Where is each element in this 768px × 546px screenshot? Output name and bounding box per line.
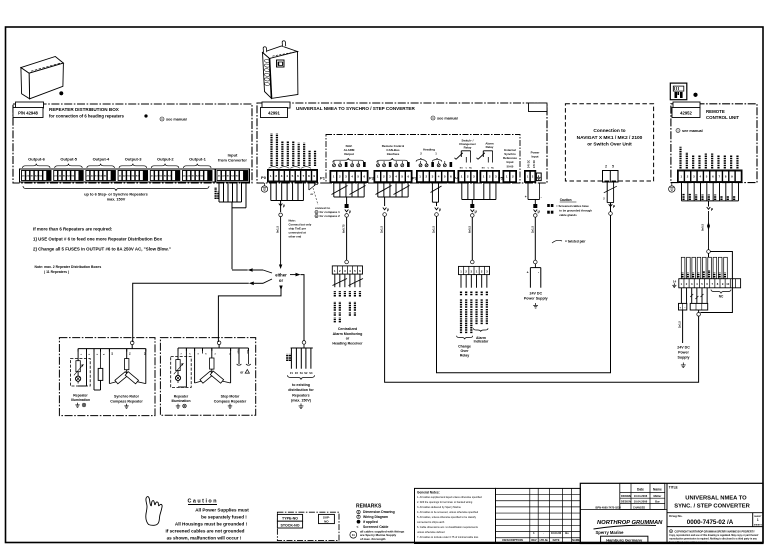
changeover alarm terminal strip bbox=[459, 266, 490, 274]
svg-text:6. Cable dimensions acc. to c: 6. Cable dimensions acc. to classificati… bbox=[417, 526, 479, 529]
entry junction 1 bbox=[130, 341, 134, 345]
output group Output-5 bbox=[54, 171, 58, 181]
svg-text:Supply: Supply bbox=[678, 356, 690, 360]
svg-text:.: . bbox=[543, 531, 544, 535]
svg-text:or Switch Over Unit: or Switch Over Unit bbox=[587, 142, 632, 148]
illumination resistor 1 bbox=[74, 349, 84, 376]
svg-text:Indicator: Indicator bbox=[474, 340, 489, 344]
svg-text:Compass Repeater: Compass Repeater bbox=[110, 400, 143, 404]
alarm relay symbol bbox=[477, 151, 495, 170]
svg-text:TYPE-NO: TYPE-NO bbox=[282, 517, 298, 521]
remote bypass wire right bbox=[700, 252, 732, 313]
wire either/or to step repeater bbox=[218, 287, 281, 342]
svg-text:P0: P0 bbox=[261, 175, 267, 180]
remote control unit icon bbox=[670, 83, 687, 100]
svg-text:Power: Power bbox=[678, 351, 689, 355]
svg-text:= twisted pair: = twisted pair bbox=[565, 240, 586, 244]
remote control unit box bbox=[671, 104, 757, 183]
P4 cable bbox=[471, 208, 478, 264]
remote lower label cells bbox=[681, 257, 727, 278]
middle resistor branch 1 bbox=[94, 349, 103, 390]
svg-text:or: or bbox=[279, 278, 284, 283]
svg-text:UNIVERSAL NMEA TO: UNIVERSAL NMEA TO bbox=[685, 496, 747, 502]
type-no cell bbox=[277, 514, 302, 521]
svg-text:10.04.06: 10.04.06 bbox=[551, 531, 562, 535]
converter outline bbox=[257, 103, 547, 183]
svg-text:1: 1 bbox=[757, 518, 759, 522]
svg-text:S2: S2 bbox=[304, 371, 308, 375]
svg-text:5. All cables, unless otherwi: 5. All cables, unless otherwise specifie… bbox=[417, 516, 477, 519]
title block frame bbox=[580, 483, 763, 543]
svg-text:3. All cables delivered b: 3. All cables delivered by Sperry Marine bbox=[417, 506, 462, 509]
svg-text:S3: S3 bbox=[309, 371, 313, 375]
svg-text:1. All cables supplied and la: 1. All cables supplied and layed unless … bbox=[417, 496, 482, 499]
repeater distribution box 3D view bbox=[21, 57, 64, 99]
24VDC mid connector bbox=[527, 264, 541, 288]
illumination dashed box 1 bbox=[70, 359, 90, 387]
illumination lamp 2 bbox=[175, 348, 186, 387]
svg-text:Bo: Bo bbox=[565, 531, 569, 535]
svg-text:<: < bbox=[357, 525, 359, 529]
output group Output-4 bbox=[86, 171, 90, 181]
input fan labels bbox=[215, 187, 217, 199]
svg-text:9x1.5: 9x1.5 bbox=[276, 226, 280, 233]
svg-text:REMARKS: REMARKS bbox=[356, 504, 382, 510]
svg-text:Müller: Müller bbox=[653, 494, 661, 498]
NAVIGAT cable bbox=[604, 182, 617, 215]
remote labels under strip bbox=[682, 193, 684, 200]
converter 3D view bbox=[263, 41, 298, 99]
svg-text:Repeater: Repeater bbox=[73, 394, 88, 398]
svg-text:either: either bbox=[275, 273, 287, 278]
svg-text:to be grounded through: to be grounded through bbox=[559, 209, 592, 213]
svg-text:DESIGN: DESIGN bbox=[621, 500, 631, 504]
svg-text:2x1.5: 2x1.5 bbox=[380, 226, 384, 233]
svg-text:10.04.2006: 10.04.2006 bbox=[634, 494, 648, 498]
ground symbol converter bbox=[261, 183, 267, 192]
P0 fan-out wires bbox=[271, 182, 304, 201]
svg-text:10.04.2006: 10.04.2006 bbox=[634, 500, 648, 504]
synchro rotor coils 1 bbox=[109, 349, 145, 384]
svg-text:24V DC: 24V DC bbox=[677, 346, 690, 350]
changeover brace/labels bbox=[457, 336, 473, 340]
svg-text:if applied: if applied bbox=[363, 520, 378, 524]
svg-text:DRAWN: DRAWN bbox=[621, 494, 631, 498]
svg-text:form without prior written con: form without prior written consent. bbox=[669, 541, 707, 544]
svg-text:Repeaters: Repeaters bbox=[292, 393, 309, 397]
svg-text:CONTROL UNIT: CONTROL UNIT bbox=[706, 115, 739, 120]
converter inner option box bbox=[326, 135, 520, 184]
copyright bbox=[669, 530, 672, 533]
svg-text:6x0.75: 6x0.75 bbox=[342, 224, 346, 233]
svg-text:42952: 42952 bbox=[680, 111, 692, 116]
svg-text:Input: Input bbox=[531, 154, 538, 158]
svg-text:-: - bbox=[684, 306, 685, 310]
step repeater box bbox=[160, 338, 255, 416]
distribution fan labels bbox=[286, 354, 288, 361]
wires below with slashes bbox=[333, 274, 364, 287]
illumination lamp 1 bbox=[76, 349, 87, 386]
svg-text:COPYRIGHT NORTHROP GRUMMAN SPE: COPYRIGHT NORTHROP GRUMMAN SPERRY MARINE… bbox=[675, 530, 756, 533]
svg-text:NC: NC bbox=[719, 295, 724, 299]
svg-text:14: 14 bbox=[673, 280, 677, 284]
svg-text:for compass 2: for compass 2 bbox=[320, 214, 341, 218]
svg-text:+: + bbox=[527, 271, 529, 275]
svg-text:4. All cables to be screened,: 4. All cables to be screened, unless oth… bbox=[417, 511, 479, 514]
or-triangle symbol bbox=[237, 348, 251, 375]
svg-text:Connection to: Connection to bbox=[593, 128, 625, 134]
svg-text:+: + bbox=[525, 195, 527, 199]
42952 tab bbox=[673, 102, 700, 108]
svg-text:Heading Receiver: Heading Receiver bbox=[332, 341, 363, 345]
svg-text:24V DC: 24V DC bbox=[533, 160, 536, 168]
svg-text:NO: NO bbox=[482, 167, 485, 169]
svg-text:2: 2 bbox=[605, 165, 607, 169]
42991 label bbox=[261, 108, 288, 118]
wire either/or to synchro repeater bbox=[232, 269, 248, 271]
svg-text:Illumination: Illumination bbox=[171, 399, 190, 403]
svg-text:Repeater: Repeater bbox=[174, 395, 189, 399]
top-right corner tab bbox=[529, 103, 548, 112]
step motor coils bbox=[195, 348, 231, 383]
mains input wires bbox=[525, 183, 542, 209]
svg-text:Hamburg Germany: Hamburg Germany bbox=[606, 538, 643, 543]
P1 wires to cable bbox=[332, 183, 366, 209]
mounting dot bbox=[60, 92, 64, 96]
see manual bbox=[431, 116, 435, 120]
svg-text:Alarm Monitoring: Alarm Monitoring bbox=[333, 332, 363, 336]
svg-text:Note: max. 2 Repeater Distribu: Note: max. 2 Repeater Distribution Boxes bbox=[35, 265, 102, 269]
svg-text:UNIVERSAL NMEA TO SYNCHRO / ST: UNIVERSAL NMEA TO SYNCHRO / STEP CONVERT… bbox=[296, 106, 415, 111]
svg-text:LTR-No: LTR-No bbox=[540, 539, 549, 542]
P/N 42948 label bbox=[13, 108, 43, 118]
P0 pair braces bbox=[269, 167, 279, 169]
svg-text:Output-2: Output-2 bbox=[157, 157, 174, 162]
svg-text:If screened cables are not gro: If screened cables are not grounded bbox=[166, 529, 245, 534]
svg-text:reproduction permission is req: reproduction permission is required. Not… bbox=[669, 537, 757, 540]
P0 cable bbox=[279, 201, 286, 270]
svg-text:10: 10 bbox=[726, 282, 729, 286]
svg-text:other end: other end bbox=[289, 235, 302, 239]
centralized alarm terminal strip bbox=[332, 266, 362, 274]
svg-text:Over: Over bbox=[461, 349, 470, 353]
svg-text:Output: Output bbox=[344, 152, 354, 156]
svg-text:Change: Change bbox=[458, 345, 471, 349]
P4 wires to cable bbox=[462, 183, 496, 209]
twisted pair legend bbox=[552, 240, 562, 243]
svg-text:Screened Cable: Screened Cable bbox=[363, 525, 389, 529]
P0 signal labels bbox=[271, 159, 273, 168]
svg-text:REV: REV bbox=[531, 538, 537, 542]
date/name table bbox=[580, 483, 667, 509]
svg-text:Illumination: Illumination bbox=[71, 398, 90, 402]
svg-text:7. All cables to include unde: 7. All cables to include under 0.75 of m… bbox=[417, 536, 479, 539]
entry junction 2 bbox=[217, 341, 221, 345]
type/stock dash-dot box bbox=[277, 512, 339, 540]
svg-text:Step Motor: Step Motor bbox=[221, 395, 240, 399]
svg-text:Interface: Interface bbox=[387, 152, 400, 156]
svg-text:P/N 42948: P/N 42948 bbox=[18, 111, 38, 116]
svg-text:to existing: to existing bbox=[292, 383, 310, 387]
right supply wire bbox=[682, 310, 684, 343]
svg-text:( 11 Repeaters ): ( 11 Repeaters ) bbox=[44, 270, 69, 274]
P2 wires to cable bbox=[376, 183, 410, 207]
input from converter fan-out wires bbox=[219, 182, 246, 269]
svg-text:TITLE: TITLE bbox=[669, 485, 678, 489]
svg-text:BPN-4060-7475-0234: BPN-4060-7475-0234 bbox=[596, 505, 622, 509]
svg-text:5: 5 bbox=[612, 165, 614, 169]
svg-text:-: - bbox=[541, 195, 542, 199]
svg-text:= Screened cables have: = Screened cables have bbox=[556, 204, 589, 208]
mains cable bbox=[534, 208, 541, 264]
svg-text:2. Drill the openings for: 2. Drill the openings for terminal- or h… bbox=[417, 501, 473, 504]
svg-text:42991: 42991 bbox=[268, 111, 280, 116]
svg-text:Power Supply: Power Supply bbox=[524, 297, 548, 301]
svg-text:DATE: DATE bbox=[553, 538, 560, 542]
remote cable bbox=[707, 206, 714, 257]
svg-text:Relay: Relay bbox=[460, 353, 469, 357]
svg-text:9x0.5: 9x0.5 bbox=[701, 224, 705, 231]
remote terminal strip bbox=[678, 170, 743, 183]
svg-text:General Notes:: General Notes: bbox=[417, 491, 440, 495]
svg-text:up to 6 Step- or Synchro Repea: up to 6 Step- or Synchro Repeaters bbox=[84, 193, 148, 197]
svg-text:distribution for: distribution for bbox=[288, 388, 314, 392]
output group Output-6 bbox=[22, 171, 26, 181]
svg-text:DESCRIPTION: DESCRIPTION bbox=[502, 538, 523, 542]
svg-text:Relay: Relay bbox=[464, 146, 472, 150]
svg-text:of max. 2m length: of max. 2m length bbox=[360, 537, 386, 541]
output group Output-1 bbox=[183, 171, 187, 181]
input terminal strip bbox=[216, 169, 250, 182]
dot bbox=[694, 93, 698, 97]
ground symbol remote bbox=[669, 183, 675, 192]
changeover relay symbol bbox=[455, 151, 473, 170]
svg-text:connected to ships earth: connected to ships earth bbox=[417, 521, 445, 524]
svg-text:see manual: see manual bbox=[682, 129, 703, 133]
svg-text:see manual: see manual bbox=[166, 117, 187, 121]
synchro repeater box bbox=[59, 338, 155, 416]
svg-text:2) Change all 5 FUSES in OUTPU: 2) Change all 5 FUSES in OUTPUT #6 to 8A… bbox=[33, 247, 171, 252]
svg-text:(max. 150V): (max. 150V) bbox=[291, 399, 312, 403]
svg-text:NAVIGAT X MK1 / MK2 / 2100: NAVIGAT X MK1 / MK2 / 2100 bbox=[577, 135, 643, 141]
svg-text:11: 11 bbox=[352, 533, 355, 537]
svg-text:2x1.5: 2x1.5 bbox=[530, 226, 534, 233]
svg-text:REPEATER DISTRIBUTION BOX: REPEATER DISTRIBUTION BOX bbox=[49, 107, 120, 112]
output group Output-2 bbox=[150, 171, 154, 181]
illumination resistor 2 bbox=[174, 348, 184, 374]
svg-text:for connection of 6 heading re: for connection of 6 heading repeaters bbox=[49, 114, 125, 119]
svg-text:see manual: see manual bbox=[437, 116, 458, 120]
svg-text:Output-1: Output-1 bbox=[189, 157, 206, 162]
P3 wires to cable bbox=[431, 183, 442, 207]
svg-text:Drwg No.: Drwg No. bbox=[669, 514, 682, 518]
svg-text:If more than 6 Repeaters are r: If more than 6 Repeaters are required: bbox=[33, 227, 113, 232]
svg-text:-: - bbox=[538, 271, 539, 275]
svg-text:Centralized: Centralized bbox=[338, 327, 357, 331]
general notes box bbox=[415, 488, 496, 543]
svg-text:24V DC: 24V DC bbox=[527, 160, 530, 168]
wire either/or to existing distribution bbox=[301, 275, 305, 341]
P/N tab box bbox=[16, 102, 44, 108]
NC brace bbox=[711, 290, 731, 294]
svg-text:Heading: Heading bbox=[423, 148, 435, 152]
svg-text:1) USE Output # 6 to feed one: 1) USE Output # 6 to feed one more Repea… bbox=[33, 236, 163, 241]
P2 cable down and across to remote (wire B) bbox=[383, 206, 699, 382]
P3 cable down and across to NAVIGAT (wire A) bbox=[435, 206, 611, 372]
svg-text:Dimension Drawing: Dimension Drawing bbox=[363, 510, 395, 514]
repeater distribution box outline bbox=[13, 104, 252, 183]
mains input terminals bbox=[525, 171, 536, 183]
illumination dashed box 2 bbox=[171, 357, 192, 388]
svg-text:Synchro Rotor: Synchro Rotor bbox=[114, 395, 140, 399]
svg-text:6x0.5: 6x0.5 bbox=[467, 226, 471, 233]
svg-text:Output-5: Output-5 bbox=[60, 157, 77, 162]
svg-text:Sperry Marine: Sperry Marine bbox=[596, 530, 625, 535]
mounting tabs bbox=[263, 47, 267, 53]
+- connector bbox=[679, 303, 687, 310]
svg-text:NO: NO bbox=[460, 167, 463, 169]
svg-text:NAME: NAME bbox=[572, 538, 580, 542]
P1 cable bbox=[345, 208, 352, 264]
sup-no cell bbox=[319, 514, 335, 523]
svg-text:All Housings must be grounded: All Housings must be grounded ! bbox=[175, 522, 248, 527]
svg-text:P1: P1 bbox=[320, 176, 326, 181]
svg-text:24V DC: 24V DC bbox=[530, 292, 543, 296]
svg-text:SYNC. / STEP CONVERTER: SYNC. / STEP CONVERTER bbox=[674, 503, 750, 509]
svg-text:CHANGED: CHANGED bbox=[633, 506, 645, 509]
remote unit fan-out wires bbox=[682, 183, 739, 207]
svg-text:unless otherwise defined: unless otherwise defined bbox=[417, 531, 445, 534]
svg-text:cable glands: cable glands bbox=[559, 213, 577, 217]
svg-text:2x1.5: 2x1.5 bbox=[678, 321, 682, 328]
svg-text:Date: Date bbox=[637, 488, 644, 492]
tab box bbox=[262, 102, 290, 108]
svg-text:Copy, reproduction and use of: Copy, reproduction and use of this drawi… bbox=[669, 534, 758, 537]
terminal bus 1 bbox=[78, 348, 146, 350]
svg-text:S1: S1 bbox=[300, 371, 304, 375]
svg-text:+: + bbox=[679, 306, 681, 310]
svg-text:Output-4: Output-4 bbox=[93, 157, 110, 162]
svg-text:REMOTE: REMOTE bbox=[706, 109, 725, 114]
svg-text:NO: NO bbox=[324, 519, 329, 523]
svg-text:max. 150V: max. 150V bbox=[107, 198, 126, 202]
svg-text:Bur: Bur bbox=[655, 500, 660, 504]
svg-text:Input: Input bbox=[506, 160, 513, 164]
pointing hand icon bbox=[146, 497, 162, 526]
remote lower wires bbox=[681, 288, 707, 304]
svg-text:Relay: Relay bbox=[486, 145, 494, 149]
dashed pointer to compass note bbox=[313, 188, 318, 205]
brace: up to 6 repeaters bbox=[23, 186, 209, 191]
svg-text:Compass Repeater: Compass Repeater bbox=[214, 400, 247, 404]
svg-text:as shown, malfunction will occ: as shown, malfunction will occur ! bbox=[167, 536, 242, 541]
stock-no cell bbox=[277, 521, 302, 528]
NAVIGAT connection box bbox=[565, 104, 653, 181]
svg-text:0000-7475-02 /A: 0000-7475-02 /A bbox=[687, 519, 734, 526]
svg-text:C a u t i o n: C a u t i o n bbox=[187, 499, 216, 505]
svg-text:Name: Name bbox=[653, 488, 662, 492]
output group Output-3 bbox=[118, 171, 122, 181]
svg-text:Output-3: Output-3 bbox=[125, 157, 142, 162]
svg-text:from Converter: from Converter bbox=[218, 158, 247, 163]
output terminal strip bbox=[20, 169, 216, 182]
to existing distribution fan bbox=[291, 341, 313, 369]
revision table bbox=[496, 488, 581, 543]
or-switch for terminals 8/9 bbox=[309, 182, 318, 196]
svg-text:2x1.5: 2x1.5 bbox=[432, 226, 436, 233]
3-pole connector bbox=[690, 303, 708, 310]
svg-text:STOCK-NO: STOCK-NO bbox=[280, 523, 299, 527]
svg-text:Caution: Caution bbox=[560, 198, 572, 202]
terminal bus 2 bbox=[178, 347, 248, 349]
title area bbox=[666, 483, 668, 543]
svg-text:All Power Supplies must: All Power Supplies must bbox=[195, 508, 249, 513]
svg-text:Wiring Diagram: Wiring Diagram bbox=[363, 515, 388, 519]
svg-text:50-60: 50-60 bbox=[507, 165, 514, 169]
svg-text:or: or bbox=[346, 337, 350, 341]
svg-text:Output-6: Output-6 bbox=[28, 157, 45, 162]
see manual note bbox=[160, 117, 164, 121]
svg-text:be separately fused !: be separately fused ! bbox=[201, 515, 247, 520]
